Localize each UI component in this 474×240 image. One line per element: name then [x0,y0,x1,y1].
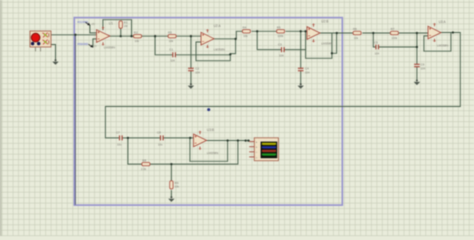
wire: U1 feedback top [103,20,132,37]
capacitor C5 [374,40,380,55]
svg-text:U3:B: U3:B [207,128,214,132]
svg-text:2.2k: 2.2k [141,167,147,171]
ground (R9) [168,196,174,202]
wire: C2 branch down [190,36,192,68]
capacitor C8 [157,131,163,147]
svg-text:R7: R7 [391,27,395,31]
svg-text:R2: R2 [134,30,138,34]
svg-text:10k: 10k [169,39,174,43]
node U2B feedback out [331,52,333,54]
svg-text:+5V: +5V [91,24,96,26]
sheet left edge [0,0,1,236]
node R2-R3 [154,35,156,37]
resistor R5 [277,26,285,39]
node U3B out inner [226,139,228,141]
node U3B out outer [237,139,239,141]
op-amp U3:B [194,131,207,150]
node U2A output [234,38,236,40]
svg-text:U2:A: U2:A [214,24,222,28]
wire: R4 to R5 segment [252,30,276,32]
node C5-C6 lower [416,46,418,48]
svg-text:C6: C6 [421,63,425,67]
wire: C4 branch down [300,31,302,68]
svg-text:10k: 10k [243,34,248,38]
node R4-R5 [256,30,258,32]
wire: R7 to U3:A [399,32,428,34]
wire: U2:B feedback step [332,33,337,53]
op-amp U2:B [307,24,320,43]
resistor R3 [168,30,176,43]
resistor R1 [119,20,128,28]
ground (sensor) [52,59,58,65]
svg-text:10k: 10k [354,36,359,40]
svg-text:C5: C5 [374,40,378,44]
svg-text:10u: 10u [158,143,163,147]
svg-text:10u: 10u [117,143,122,147]
svg-text:LM358N: LM358N [207,151,218,155]
node R3-U2A [190,35,192,37]
svg-text:LM358N: LM358N [214,48,225,52]
svg-text:104: 104 [170,59,175,63]
oscilloscope [249,138,278,161]
resistor R7 [390,27,398,40]
svg-text:100k: 100k [391,36,397,40]
op-amp U3:A [428,23,441,42]
sound sensor module MIC1 [30,31,51,52]
node X between C7 C8 [127,137,129,139]
wire: VCC arrow to U1 [90,25,97,33]
svg-text:R4: R4 [243,26,247,30]
wire: U3:A feedback [424,33,451,52]
wire: C1 right to feedback node [176,54,231,56]
node R8-R9 [170,163,172,165]
wire: R9 to ground [170,191,172,197]
svg-text:U1: U1 [109,21,113,25]
svg-text:LM358N: LM358N [104,45,115,49]
wire: R5 to U2:B [286,30,307,32]
wire: U3:B outer bias rect [128,138,238,164]
wire: U2:A feedback [196,39,236,61]
wire: C6 branch [416,33,418,64]
wire: C5 branch [373,33,375,47]
op-amp U1 [97,27,110,46]
wire: C7 to node X [123,137,128,139]
wire: sensor to ground branch [51,45,56,60]
capacitor C6 [414,63,425,71]
svg-text:R5: R5 [277,26,281,30]
wire: long vertical along frame left edge [74,35,76,205]
capacitor C2 [188,67,200,75]
node C4 tap [300,30,302,32]
wire: U2:B feedback loop [306,33,332,58]
node scope in a [244,139,246,141]
svg-text:10k: 10k [135,39,140,43]
svg-text:104: 104 [421,66,426,70]
wire: C2 to ground [190,71,192,84]
blue frame (subcircuit boundary) [74,18,342,206]
resistor R6 [353,27,361,40]
power terminal VCC/VDD [77,21,95,26]
wire: C4 to ground [300,71,302,84]
capacitor C4 [298,67,310,75]
capacitor C1 [169,48,175,63]
svg-text:104: 104 [195,70,200,74]
resistor R2 [133,30,141,43]
svg-text:104: 104 [375,51,380,55]
svg-text:10k: 10k [175,185,180,189]
resistor R9 [170,181,180,189]
wire: VSS arrow to U1 [93,39,97,47]
svg-text:100k: 100k [278,34,284,38]
node sensor/frame junction [74,34,76,36]
wire: U2:A output [214,31,242,39]
wire: C1 branch [155,36,172,55]
floating blue marker dot [207,108,210,111]
svg-text:LM358N: LM358N [437,43,448,47]
node scope in b [247,139,249,141]
power terminal VSS/GND [77,43,97,48]
ground (C4) [298,83,304,89]
node R2 input [130,35,132,37]
svg-text:R8: R8 [142,158,146,162]
svg-text:R6: R6 [353,27,357,31]
svg-text:LM358N: LM358N [321,41,332,45]
svg-text:C1: C1 [169,48,173,52]
node C6 tap [416,32,418,34]
svg-text:104: 104 [305,70,310,74]
wire: U3:B inner feedback rect [190,138,228,161]
svg-text:R9: R9 [175,181,179,185]
node R1 drop [120,35,122,37]
svg-text:U2:B: U2:B [321,19,328,23]
svg-text:C8: C8 [157,131,161,135]
wire: R1 bottom to output [120,28,122,36]
wire: C3 to U2:B minus vertical [285,31,306,49]
capacitor C7 [116,131,122,147]
wire: U2:B output to R6 [320,32,352,34]
wire: sensor output to U1 [51,34,97,36]
svg-text:C4: C4 [305,67,309,71]
node U3B minus [189,137,191,139]
wire: R6 to R7 [363,32,390,34]
svg-text:0V: 0V [94,46,97,48]
wire: R9 branch down [170,164,172,180]
svg-text:C7: C7 [116,131,120,135]
wire: U1 output run to U2:A [110,35,133,37]
svg-text:VSS/GND: VSS/GND [77,43,88,46]
wire: C8 to U3:B [164,137,194,139]
ground (C2) [188,83,194,89]
op-amp U2:A [201,29,214,48]
node U2B output step [336,32,338,34]
node C1 feedback [229,53,231,55]
wire: C6 to ground [416,67,418,80]
svg-text:C3: C3 [278,42,282,46]
svg-text:C2: C2 [195,67,199,71]
wire: C3 branch [257,31,281,49]
node U3A output [452,31,454,33]
wire: C5 lower run to C6 vertical [379,46,417,48]
resistor R4 [242,26,250,39]
svg-text:104: 104 [279,53,284,57]
capacitor C3 [278,42,284,57]
svg-text:R1: R1 [124,20,128,24]
svg-text:R3: R3 [168,30,172,34]
wire: U3:B output to scope [207,140,250,142]
wire: node X to C8 [128,137,160,139]
wire: U3:A output long route to bottom section [105,33,460,138]
ground (C6) [414,80,420,86]
resistor R8 [141,158,150,171]
node R6-R7 [372,32,374,34]
svg-text:U3:A: U3:A [439,20,447,24]
node U2B minus tap [304,30,306,32]
